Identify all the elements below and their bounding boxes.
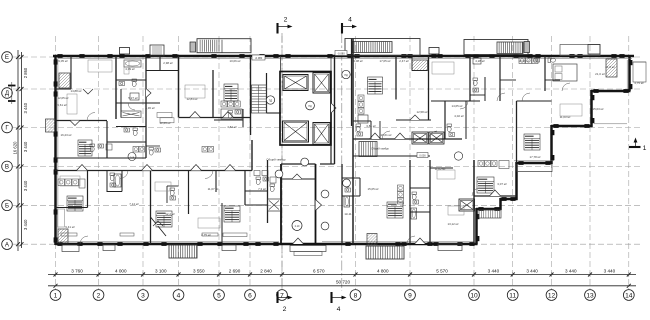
svg-text:3 440: 3 440 (23, 141, 28, 152)
svg-text:16 620: 16 620 (13, 141, 18, 154)
svg-text:8,36 м²: 8,36 м² (145, 106, 154, 110)
svg-text:4: 4 (337, 306, 341, 313)
svg-text:21,0 м²: 21,0 м² (605, 65, 614, 69)
svg-text:11,02 м²: 11,02 м² (435, 167, 446, 171)
svg-text:1: 1 (643, 145, 647, 152)
svg-text:14: 14 (625, 292, 633, 299)
svg-text:2 860: 2 860 (23, 67, 28, 78)
svg-text:4,28 м²: 4,28 м² (475, 59, 484, 63)
svg-text:Общий тамбур: Общий тамбур (371, 147, 389, 151)
svg-text:2.10: 2.10 (295, 225, 300, 228)
svg-text:ПД: ПД (344, 75, 348, 77)
svg-text:4,52 м²: 4,52 м² (227, 125, 236, 129)
svg-text:3 440: 3 440 (604, 268, 616, 273)
svg-text:9,41 м²: 9,41 м² (65, 225, 74, 229)
svg-text:17,78 м²: 17,78 м² (530, 155, 541, 159)
svg-text:9,61 м²: 9,61 м² (57, 103, 66, 107)
svg-text:Б: Б (5, 203, 9, 210)
svg-text:2,98 м²: 2,98 м² (163, 61, 172, 65)
svg-text:2 840: 2 840 (260, 268, 272, 273)
svg-text:8: 8 (354, 292, 358, 299)
svg-text:5: 5 (217, 292, 221, 299)
svg-text:6: 6 (248, 292, 252, 299)
svg-text:ПД: ПД (308, 106, 312, 108)
svg-text:3 760: 3 760 (71, 268, 83, 273)
svg-text:3 440: 3 440 (23, 102, 28, 113)
svg-text:13,12 м²: 13,12 м² (448, 222, 459, 226)
svg-text:2: 2 (284, 17, 288, 24)
svg-text:-0.080: -0.080 (337, 52, 345, 56)
svg-text:11: 11 (509, 292, 516, 299)
svg-text:3,75 м²: 3,75 м² (634, 81, 643, 85)
svg-text:10,06 м²: 10,06 м² (230, 59, 241, 63)
svg-text:9,05 м²: 9,05 м² (58, 59, 67, 63)
svg-text:В: В (5, 164, 9, 171)
svg-text:2 690: 2 690 (229, 268, 241, 273)
svg-text:4,09 м²: 4,09 м² (125, 67, 134, 71)
svg-text:16,06 м²: 16,06 м² (519, 59, 530, 63)
svg-text:4: 4 (177, 292, 181, 299)
svg-text:4,08 м²: 4,08 м² (353, 59, 362, 63)
svg-text:ПД: ПД (269, 101, 273, 103)
svg-text:4 000: 4 000 (115, 268, 127, 273)
svg-text:12,23 м²: 12,23 м² (160, 121, 171, 125)
svg-text:4,02 м²: 4,02 м² (454, 114, 463, 118)
svg-text:13: 13 (586, 292, 594, 299)
svg-text:16,61 м²: 16,61 м² (381, 133, 392, 137)
svg-text:21,0 м²: 21,0 м² (595, 72, 605, 76)
svg-text:12,58 м²: 12,58 м² (417, 110, 428, 114)
svg-text:50 720: 50 720 (336, 280, 350, 285)
svg-text:5,27 м²: 5,27 м² (128, 96, 137, 100)
svg-text:11,03 м²: 11,03 м² (560, 115, 571, 119)
svg-text:2,47 м²: 2,47 м² (399, 59, 408, 63)
svg-text:5 570: 5 570 (436, 268, 448, 273)
svg-text:7,14 м²: 7,14 м² (129, 202, 138, 206)
svg-text:4: 4 (348, 17, 352, 24)
svg-text:Общий тамбур: Общий тамбур (266, 158, 286, 162)
svg-text:3 100: 3 100 (155, 268, 167, 273)
svg-text:6 570: 6 570 (313, 268, 325, 273)
svg-text:14,65 м²: 14,65 м² (452, 104, 463, 108)
svg-text:4 800: 4 800 (377, 268, 389, 273)
svg-text:15,03 м²: 15,03 м² (593, 107, 604, 111)
svg-text:1К-11: 1К-11 (344, 212, 352, 216)
svg-text:3,81 м²: 3,81 м² (366, 124, 375, 128)
svg-text:2: 2 (97, 292, 101, 299)
svg-text:3: 3 (141, 292, 145, 299)
svg-text:2,75 м²: 2,75 м² (201, 233, 210, 237)
svg-text:9: 9 (408, 292, 412, 299)
svg-text:17,05 м²: 17,05 м² (380, 59, 391, 63)
svg-text:3 440: 3 440 (23, 219, 28, 230)
svg-text:7,3 м²: 7,3 м² (258, 187, 266, 191)
svg-text:12,05 м²: 12,05 м² (58, 96, 69, 100)
svg-text:3 440: 3 440 (526, 268, 538, 273)
svg-text:3 550: 3 550 (193, 268, 205, 273)
svg-text:3 440: 3 440 (565, 268, 577, 273)
svg-text:12,84 м²: 12,84 м² (187, 97, 198, 101)
svg-text:15,05 м²: 15,05 м² (368, 187, 379, 191)
svg-text:1: 1 (54, 292, 58, 299)
svg-text:2: 2 (283, 306, 287, 313)
svg-text:3 440: 3 440 (23, 180, 28, 191)
svg-text:3 440: 3 440 (488, 268, 500, 273)
svg-text:14,88 м²: 14,88 м² (71, 89, 82, 93)
svg-text:16,23 м²: 16,23 м² (61, 133, 72, 137)
svg-text:3,07 м²: 3,07 м² (497, 182, 506, 186)
svg-text:12: 12 (548, 292, 556, 299)
svg-text:10: 10 (470, 292, 478, 299)
svg-text:-0.080: -0.080 (255, 56, 263, 60)
svg-text:0.000: 0.000 (419, 155, 426, 158)
svg-text:Е: Е (5, 54, 9, 61)
svg-text:12,2 м²: 12,2 м² (165, 212, 174, 216)
svg-text:7: 7 (280, 292, 284, 299)
svg-text:11,07 м²: 11,07 м² (208, 187, 219, 191)
